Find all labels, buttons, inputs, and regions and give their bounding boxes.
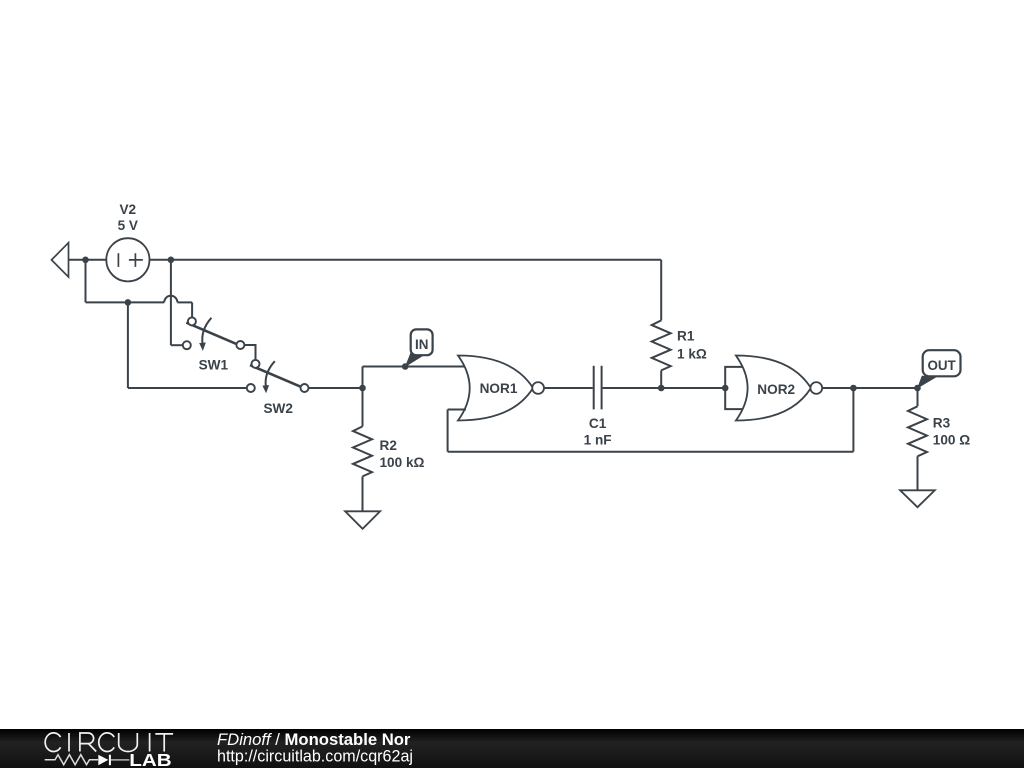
- ground (R3): [900, 490, 935, 507]
- wire NOR2 out to OUT: [823, 387, 918, 389]
- wire node up: [362, 367, 364, 389]
- net flag (left-pointing triangle): [52, 243, 69, 277]
- wire V2+ down: [170, 260, 172, 345]
- NOR1 output bubble: [532, 382, 544, 394]
- wire SW1 to SW2: [245, 345, 256, 360]
- svg-text:OUT: OUT: [927, 358, 956, 373]
- wire node to NOR2: [661, 387, 725, 389]
- logo letter T: [155, 734, 173, 752]
- svg-text:R2: R2: [380, 438, 398, 453]
- V2 plus sign: [129, 253, 143, 267]
- logo resistor-diode squiggle: [45, 755, 130, 766]
- svg-text:V2: V2: [119, 202, 136, 217]
- node dot NOR2 input: [722, 385, 729, 392]
- resistor R1: [652, 320, 671, 370]
- wire to SW1 throw1: [171, 344, 183, 346]
- wire feedback horizontal: [448, 451, 854, 453]
- wire node B down: [127, 302, 129, 388]
- svg-text:1 nF: 1 nF: [584, 433, 612, 448]
- logo letter I: [149, 733, 151, 752]
- svg-text:IN: IN: [415, 337, 428, 352]
- wire flag to V2: [69, 259, 107, 261]
- NOR2 output bubble: [810, 382, 822, 394]
- svg-text:http://circuitlab.com/cqr62aj: http://circuitlab.com/cqr62aj: [217, 748, 413, 766]
- CircuitLab logo word CIRCUIT (thin stroked letters): [45, 733, 173, 752]
- svg-text:1 kΩ: 1 kΩ: [677, 347, 707, 362]
- switch SW1: [183, 317, 245, 351]
- flag OUT: [917, 350, 960, 388]
- wire NOR2 input bracket: [725, 367, 744, 409]
- wire R3 to ground: [917, 456, 919, 490]
- wire NOR1 out to C1: [545, 387, 593, 389]
- svg-text:R3: R3: [933, 416, 951, 431]
- flag IN: [405, 329, 433, 367]
- wire to hop: [86, 301, 165, 303]
- logo letter I: [68, 733, 70, 752]
- node dot left flag: [82, 257, 89, 264]
- node dot IN flag: [402, 363, 409, 370]
- svg-text:NOR1: NOR1: [480, 381, 518, 396]
- nor gate NOR2: [736, 356, 811, 421]
- node dot feedback: [850, 385, 857, 392]
- node dot C1/R1: [658, 385, 665, 392]
- wire hop over: [164, 296, 177, 303]
- wire R2 to ground: [362, 476, 364, 511]
- svg-text:5 V: 5 V: [118, 218, 138, 233]
- ground (R2): [345, 511, 380, 529]
- logo letter U: [119, 733, 138, 752]
- node dot below V2: [125, 299, 132, 306]
- logo letter C: [99, 733, 114, 752]
- wire R2 top: [362, 388, 364, 426]
- svg-text:FDinoff / Monostable Nor: FDinoff / Monostable Nor: [217, 731, 411, 749]
- svg-text:100 kΩ: 100 kΩ: [380, 455, 425, 470]
- wire hop to SW1 pole: [177, 301, 192, 303]
- svg-text:SW1: SW1: [199, 358, 229, 373]
- svg-text:100 Ω: 100 Ω: [933, 432, 970, 447]
- svg-text:C1: C1: [589, 416, 607, 431]
- resistor R2: [353, 426, 372, 476]
- wire down to SW1 pole: [191, 302, 193, 317]
- wire top rail to R1: [171, 259, 662, 261]
- resistor R3: [908, 406, 927, 456]
- wire C1 to node: [603, 387, 662, 389]
- voltage source V2: [106, 238, 149, 281]
- svg-text:NOR2: NOR2: [757, 382, 795, 397]
- wire to NOR1 input: [363, 366, 467, 368]
- footer bar: [0, 729, 1024, 768]
- wire R1 bottom lead: [660, 370, 662, 388]
- logo letter R: [80, 733, 96, 752]
- logo diode: [98, 755, 108, 766]
- V2 minus terminal bar: [117, 253, 119, 267]
- node dot V2 plus: [168, 257, 175, 264]
- node dot IN net: [359, 385, 366, 392]
- wire R1 top lead: [660, 260, 662, 321]
- wire node A down: [85, 260, 87, 303]
- nor gate NOR1: [458, 356, 533, 421]
- capacitor C1: [594, 366, 602, 410]
- wire V2 right: [150, 259, 171, 261]
- logo letter C: [45, 733, 60, 752]
- wire SW2 to node IN: [309, 387, 363, 389]
- wire R3 top lead: [917, 388, 919, 406]
- svg-text:R1: R1: [677, 329, 695, 344]
- svg-text:LAB: LAB: [129, 750, 171, 768]
- switch SW2: [247, 360, 309, 393]
- svg-text:SW2: SW2: [263, 401, 293, 416]
- wire feedback down: [447, 410, 449, 452]
- junction node dots: [82, 257, 921, 392]
- wire feedback up: [852, 388, 854, 452]
- node dot OUT: [914, 385, 921, 392]
- wire bottom to SW2 throw: [128, 387, 247, 389]
- wire NOR1 lower input stub: [448, 409, 466, 411]
